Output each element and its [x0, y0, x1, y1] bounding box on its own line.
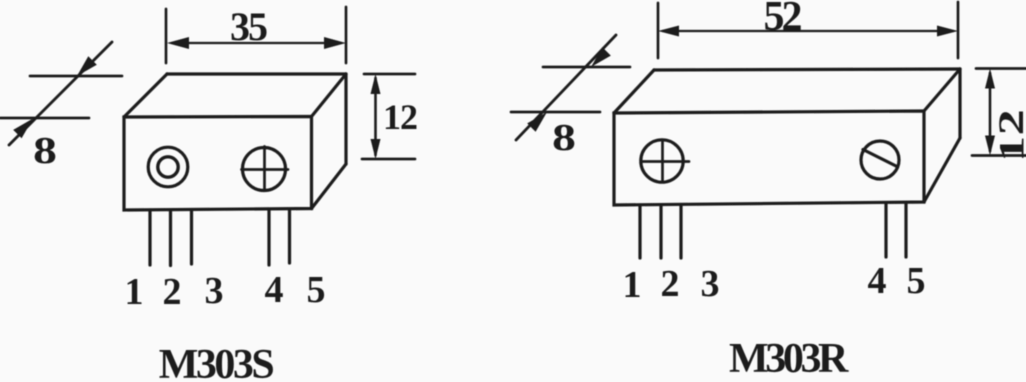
- dimension 12 (M303R) top extension line: [976, 67, 1026, 70]
- dimension 35 right arrowhead: [324, 37, 346, 49]
- dimension 12 (M303R) bottom arrowhead: [985, 136, 995, 156]
- M303S lens outer circle: [148, 147, 188, 187]
- svg-text:1: 1: [125, 271, 144, 313]
- module M303R top face right edge: [924, 69, 960, 111]
- dimension 8 (M303R) upper arrowhead: [591, 47, 611, 67]
- M303R screw cross horizontal line: [642, 160, 690, 163]
- svg-text:52: 52: [764, 0, 802, 40]
- svg-text:M303S: M303S: [159, 342, 274, 382]
- M303R slotted screw circle: [861, 141, 899, 179]
- dimension 8 (M303R) upper extension line: [543, 66, 630, 69]
- module M303R top face left edge: [614, 70, 654, 113]
- svg-text:5: 5: [307, 269, 326, 311]
- svg-text:8: 8: [552, 117, 576, 159]
- dimension 52 line: [663, 30, 953, 32]
- module M303S bottom right edge: [312, 164, 347, 209]
- dimension 35 line: [172, 42, 341, 44]
- svg-text:M303R: M303R: [729, 336, 849, 382]
- dimension 12 (M303S) dimension line: [374, 78, 377, 155]
- M303S pin 5 lead: [288, 210, 291, 263]
- M303R screw cross vertical line: [661, 140, 664, 180]
- M303R pin 5 lead: [904, 204, 907, 258]
- svg-text:4: 4: [868, 260, 887, 302]
- dimension 52 left arrowhead: [658, 26, 679, 37]
- module M303S back right vertical edge: [344, 74, 347, 164]
- module M303R bottom right edge: [924, 138, 960, 202]
- dimension 8 (M303S) lower arrowhead: [13, 119, 33, 139]
- svg-text:3: 3: [701, 263, 720, 305]
- M303R adjustment screw circle: [641, 140, 683, 182]
- svg-text:1: 1: [991, 136, 1026, 162]
- dimension 52 right arrowhead: [937, 26, 958, 37]
- svg-text:4: 4: [265, 269, 284, 311]
- module M303R back right vertical edge: [958, 69, 961, 138]
- svg-text:1: 1: [623, 264, 642, 306]
- dimension 8 (M303R) lower arrowhead: [527, 112, 547, 132]
- dimension 8 (M303S) diagonal dimension line: [9, 42, 112, 145]
- dimension 35 left extension line: [165, 9, 168, 63]
- svg-text:2: 2: [661, 263, 680, 305]
- module M303S top face left edge: [124, 74, 167, 117]
- M303S pin 4 lead: [267, 210, 270, 265]
- dimension 8 (M303R) lower extension line: [511, 111, 600, 114]
- M303S pin 3 lead: [190, 210, 193, 264]
- M303R pin 3 lead: [679, 205, 682, 258]
- dimension 35 right extension line: [345, 7, 348, 63]
- dimension 12 (M303S) top arrowhead: [371, 74, 381, 94]
- M303S pin 1 lead: [148, 210, 151, 265]
- dimension 8 (M303R) diagonal dimension line: [516, 35, 616, 140]
- module M303S front face: [124, 117, 312, 211]
- svg-text:35: 35: [230, 4, 267, 49]
- M303R screw slot line: [863, 150, 897, 167]
- svg-text:2: 2: [991, 109, 1026, 135]
- svg-text:2: 2: [163, 271, 182, 313]
- module M303S top face right edge: [312, 74, 347, 117]
- dimension 52 right extension line: [957, 2, 960, 58]
- svg-text:12: 12: [383, 97, 417, 137]
- M303S screw cross horizontal line: [242, 168, 289, 171]
- M303S pin 2 lead: [169, 210, 172, 266]
- M303R pin 1 lead: [638, 205, 641, 258]
- dimension 12 (M303S) bottom extension line: [362, 158, 415, 161]
- dimension 8 (M303S) upper arrowhead: [77, 56, 97, 76]
- svg-text:3: 3: [205, 270, 224, 312]
- module M303R top face back edge: [654, 69, 960, 70]
- M303S adjustment screw circle: [243, 148, 286, 191]
- svg-text:8: 8: [33, 130, 57, 172]
- svg-text:5: 5: [907, 260, 926, 302]
- dimension 12 (M303S) top extension line: [364, 73, 415, 76]
- dimension 8 (M303S) lower extension line: [0, 117, 89, 120]
- module M303S top face back edge: [167, 72, 346, 75]
- module M303R front face: [614, 111, 924, 205]
- M303R pin 2 lead: [659, 205, 662, 258]
- dimension 8 (M303S) upper extension line: [30, 75, 122, 78]
- M303S lens inner circle: [158, 157, 178, 177]
- M303R pin 4 lead: [884, 204, 887, 258]
- M303S screw cross vertical line: [263, 147, 266, 190]
- dimension 35 left arrowhead: [167, 37, 189, 49]
- dimension 12 (M303R) dimension line: [989, 73, 992, 151]
- dimension 12 (M303R) bottom extension line: [972, 154, 1026, 157]
- dimension 52 left extension line: [657, 3, 660, 58]
- dimension 12 (M303R) top arrowhead: [985, 69, 995, 89]
- dimension 12 (M303S) bottom arrowhead: [371, 139, 381, 159]
